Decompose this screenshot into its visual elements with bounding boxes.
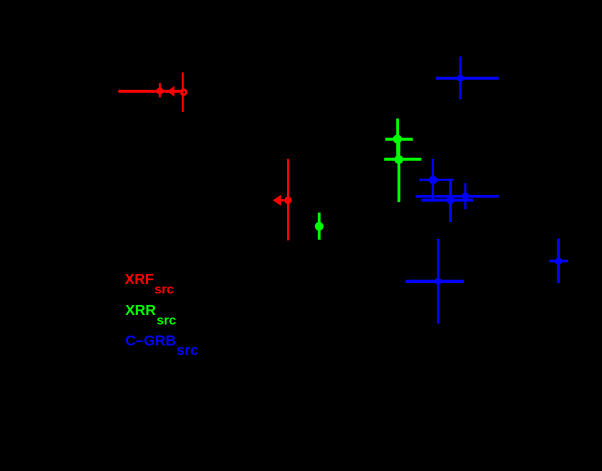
svg-text:XRR: XRR bbox=[125, 303, 156, 319]
svg-text:src: src bbox=[157, 313, 177, 328]
svg-text:src: src bbox=[177, 343, 199, 359]
svg-text:XRF: XRF bbox=[125, 272, 154, 288]
svg-text:src: src bbox=[154, 282, 174, 297]
svg-text:C–GRB: C–GRB bbox=[125, 333, 176, 349]
